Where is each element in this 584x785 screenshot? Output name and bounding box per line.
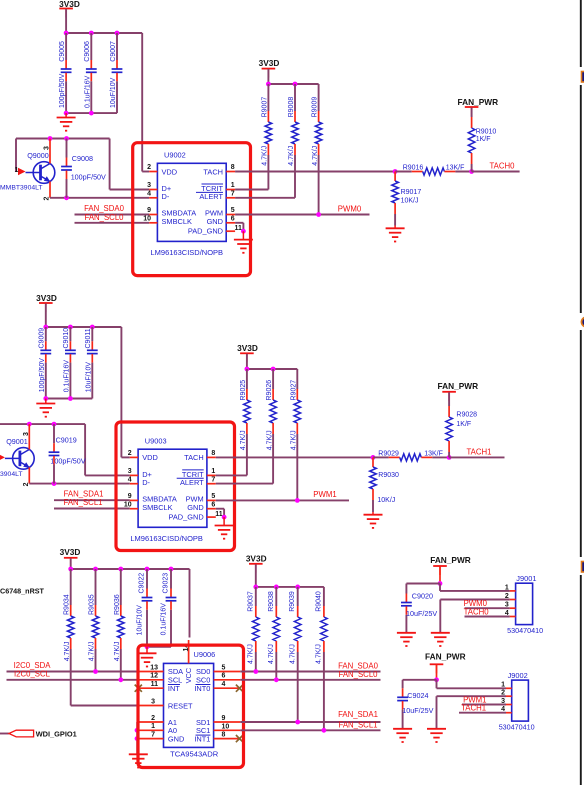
svg-text:R9036: R9036 bbox=[114, 594, 121, 615]
svg-text:4: 4 bbox=[222, 681, 226, 688]
svg-text:11: 11 bbox=[215, 511, 223, 518]
svg-text:10uF/10V: 10uF/10V bbox=[110, 77, 117, 108]
svg-text:TACH: TACH bbox=[203, 167, 223, 176]
wire bbox=[45, 399, 47, 404]
svg-text:TACH0: TACH0 bbox=[464, 607, 490, 616]
net FAN_SDA1 bbox=[240, 710, 380, 724]
svg-text:SMBCLK: SMBCLK bbox=[142, 503, 172, 512]
net FAN_SCL1 bbox=[240, 720, 380, 732]
node bbox=[115, 31, 120, 36]
node bbox=[447, 455, 452, 460]
resistor R9016 bbox=[395, 165, 472, 176]
net PWM0 bbox=[235, 205, 369, 217]
node bbox=[245, 367, 250, 372]
svg-text:PAD_GND: PAD_GND bbox=[188, 226, 223, 235]
svg-text:2: 2 bbox=[147, 164, 151, 171]
svg-text:D-: D- bbox=[142, 478, 150, 487]
svg-text:7: 7 bbox=[231, 191, 235, 198]
wire bbox=[29, 483, 130, 485]
svg-text:3: 3 bbox=[23, 432, 30, 436]
wire bbox=[146, 647, 148, 654]
resistor R9026 bbox=[216, 369, 277, 484]
svg-text:1: 1 bbox=[15, 167, 19, 174]
svg-text:LM96163CISD/NOPB: LM96163CISD/NOPB bbox=[151, 248, 224, 257]
svg-text:9: 9 bbox=[147, 207, 151, 214]
svg-text:FAN_SCL1: FAN_SCL1 bbox=[63, 498, 102, 507]
wire bbox=[440, 584, 510, 591]
power FAN_PWR bbox=[438, 381, 479, 401]
svg-text:3: 3 bbox=[128, 468, 132, 475]
clipped port symbol bbox=[582, 317, 584, 327]
net C6748_nRST bbox=[0, 586, 45, 595]
op-amp U9003 bbox=[124, 436, 223, 543]
svg-text:FAN_SDA0: FAN_SDA0 bbox=[84, 204, 125, 213]
resistor R9027 bbox=[290, 369, 300, 500]
svg-text:R9038: R9038 bbox=[268, 591, 275, 612]
svg-text:4.7K/J: 4.7K/J bbox=[262, 146, 269, 166]
svg-text:R9037: R9037 bbox=[247, 591, 254, 612]
wire bbox=[66, 112, 117, 114]
svg-text:3904LT: 3904LT bbox=[0, 471, 23, 478]
svg-text:PAD_GND: PAD_GND bbox=[169, 512, 204, 521]
svg-text:9: 9 bbox=[222, 715, 226, 722]
svg-text:100pF/50V: 100pF/50V bbox=[50, 457, 85, 466]
node bbox=[52, 422, 57, 427]
svg-text:10uF/10V: 10uF/10V bbox=[85, 362, 92, 393]
net PWM1 bbox=[462, 695, 506, 704]
resistor R9039 bbox=[289, 587, 301, 722]
svg-text:FAN_PWR: FAN_PWR bbox=[438, 381, 479, 391]
ground bbox=[427, 729, 446, 742]
svg-text:FAN_SCL0: FAN_SCL0 bbox=[84, 213, 124, 222]
wire bbox=[216, 509, 224, 517]
svg-text:R9027: R9027 bbox=[290, 380, 297, 401]
svg-text:2: 2 bbox=[151, 715, 155, 722]
power 3V3D bbox=[237, 343, 258, 362]
svg-text:10K/J: 10K/J bbox=[377, 497, 395, 504]
node bbox=[145, 644, 150, 649]
svg-text:11: 11 bbox=[235, 225, 243, 232]
wire bbox=[235, 223, 243, 231]
transistor Q9001 bbox=[0, 424, 34, 486]
resistor R9037 bbox=[247, 587, 259, 672]
svg-text:R9009: R9009 bbox=[312, 97, 319, 118]
svg-text:C9024: C9024 bbox=[407, 691, 428, 700]
svg-text:INT1: INT1 bbox=[194, 735, 210, 744]
svg-text:R9028: R9028 bbox=[456, 411, 477, 418]
svg-text:D-: D- bbox=[162, 192, 170, 201]
wire bbox=[437, 696, 507, 729]
svg-text:0.1uF/16V: 0.1uF/16V bbox=[64, 360, 71, 393]
highlight box U9002 bbox=[133, 143, 251, 276]
node bbox=[52, 481, 57, 486]
svg-text:6: 6 bbox=[231, 216, 235, 223]
svg-text:R9029: R9029 bbox=[378, 451, 399, 458]
svg-text:MMBT3904LT: MMBT3904LT bbox=[0, 184, 43, 191]
svg-text:1: 1 bbox=[151, 723, 155, 730]
node bbox=[145, 567, 150, 572]
svg-text:C9008: C9008 bbox=[72, 154, 93, 163]
power 3V3D bbox=[259, 58, 280, 78]
svg-text:530470410: 530470410 bbox=[507, 626, 543, 635]
svg-text:R9040: R9040 bbox=[315, 591, 322, 612]
power FAN_PWR bbox=[430, 555, 471, 575]
svg-text:TCA9543ADR: TCA9543ADR bbox=[170, 750, 219, 759]
node bbox=[295, 585, 300, 590]
svg-text:1: 1 bbox=[505, 584, 509, 591]
wire bbox=[403, 679, 437, 681]
svg-text:J9002: J9002 bbox=[508, 671, 528, 680]
net FAN_SDA0 bbox=[75, 204, 150, 214]
node bbox=[434, 677, 439, 682]
net TACH1 bbox=[459, 704, 506, 713]
svg-text:FAN_SDA1: FAN_SDA1 bbox=[338, 710, 378, 719]
border frame bbox=[580, 0, 582, 785]
svg-text:5: 5 bbox=[222, 664, 226, 671]
wire bbox=[372, 512, 374, 515]
highlight box U9003 bbox=[116, 422, 235, 551]
svg-text:R9034: R9034 bbox=[64, 594, 71, 615]
svg-text:4.7K/J: 4.7K/J bbox=[316, 644, 323, 664]
port WDI_GPIO1 bbox=[0, 730, 77, 739]
svg-text:R9026: R9026 bbox=[266, 380, 273, 401]
svg-text:R9007: R9007 bbox=[261, 97, 268, 118]
node bbox=[43, 325, 48, 330]
svg-text:C9005: C9005 bbox=[59, 41, 66, 62]
wire bbox=[46, 327, 130, 457]
resistor R9036 bbox=[114, 569, 124, 680]
svg-text:3V3D: 3V3D bbox=[259, 58, 280, 68]
ground bbox=[36, 404, 55, 417]
net TACH0 bbox=[472, 161, 520, 171]
resistor R9034 bbox=[64, 569, 138, 706]
ground bbox=[397, 633, 416, 646]
node bbox=[371, 455, 376, 460]
node bbox=[169, 567, 174, 572]
power 3V3D bbox=[59, 0, 80, 18]
wire bbox=[439, 567, 441, 584]
svg-text:1K/F: 1K/F bbox=[456, 421, 471, 428]
svg-text:INT0: INT0 bbox=[194, 684, 210, 693]
no-connect bbox=[135, 685, 142, 692]
svg-text:LM96163CISD/NOPB: LM96163CISD/NOPB bbox=[130, 534, 203, 543]
svg-text:3V3D: 3V3D bbox=[60, 547, 81, 557]
svg-text:FAN_PWR: FAN_PWR bbox=[430, 555, 471, 565]
svg-text:8: 8 bbox=[211, 450, 215, 457]
node bbox=[64, 195, 69, 200]
svg-text:GND: GND bbox=[168, 735, 184, 744]
capacitor C9005 bbox=[59, 33, 72, 113]
svg-text:ALERT: ALERT bbox=[199, 192, 223, 201]
resistor R9030 bbox=[370, 457, 399, 512]
svg-text:C9011: C9011 bbox=[85, 328, 92, 348]
svg-text:100pF/50V: 100pF/50V bbox=[39, 358, 46, 393]
node bbox=[271, 367, 276, 372]
svg-text:GND: GND bbox=[207, 217, 223, 226]
svg-text:FAN_PWR: FAN_PWR bbox=[458, 97, 499, 107]
clipped port symbol bbox=[582, 72, 584, 83]
node bbox=[68, 567, 73, 572]
svg-text:3: 3 bbox=[505, 602, 509, 609]
node bbox=[135, 728, 140, 733]
svg-text:Q9001: Q9001 bbox=[6, 437, 28, 446]
svg-text:4.7K/J: 4.7K/J bbox=[312, 146, 319, 166]
net FAN_SCL0 bbox=[240, 670, 380, 682]
svg-text:0.1uF/16V: 0.1uF/16V bbox=[160, 603, 167, 636]
power FAN_PWR bbox=[425, 651, 466, 673]
svg-text:3: 3 bbox=[151, 698, 155, 705]
wire bbox=[71, 569, 190, 638]
svg-text:4.7K/J: 4.7K/J bbox=[268, 644, 275, 664]
svg-text:2: 2 bbox=[23, 482, 30, 486]
svg-text:3V3D: 3V3D bbox=[246, 553, 267, 563]
svg-text:1: 1 bbox=[231, 182, 235, 189]
resistor R9029 bbox=[373, 450, 449, 461]
svg-text:5: 5 bbox=[231, 207, 235, 214]
svg-text:C9019: C9019 bbox=[56, 436, 77, 445]
ic U9006 bbox=[138, 640, 241, 759]
svg-text:10: 10 bbox=[143, 216, 151, 223]
capacitor C9010 bbox=[63, 327, 76, 399]
ground bbox=[215, 526, 234, 539]
wire bbox=[235, 171, 395, 173]
svg-text:3: 3 bbox=[147, 182, 151, 189]
svg-text:TACH: TACH bbox=[184, 453, 204, 462]
svg-text:U9003: U9003 bbox=[145, 436, 167, 445]
wire bbox=[65, 113, 67, 117]
svg-text:R9025: R9025 bbox=[240, 380, 247, 401]
node bbox=[469, 169, 474, 174]
svg-text:I2C0_SCL: I2C0_SCL bbox=[14, 670, 51, 679]
svg-text:4.7K/J: 4.7K/J bbox=[240, 430, 247, 450]
wire bbox=[136, 722, 138, 754]
no-connect bbox=[236, 685, 243, 692]
node bbox=[68, 325, 73, 330]
svg-text:6: 6 bbox=[222, 673, 226, 680]
ground bbox=[129, 754, 148, 767]
node bbox=[89, 31, 94, 36]
net FAN_SCL0 bbox=[75, 213, 150, 223]
svg-text:13: 13 bbox=[150, 664, 158, 671]
node bbox=[89, 111, 94, 116]
capacitor C9022 bbox=[136, 569, 152, 647]
wire bbox=[255, 564, 257, 587]
svg-text:3V3D: 3V3D bbox=[237, 343, 258, 353]
svg-text:4.7K/J: 4.7K/J bbox=[290, 644, 297, 664]
node bbox=[222, 515, 227, 520]
net FAN_SDA1 bbox=[54, 490, 130, 501]
svg-text:4: 4 bbox=[501, 706, 505, 713]
svg-text:4.7K/J: 4.7K/J bbox=[291, 430, 298, 450]
capacitor C9023 bbox=[160, 569, 176, 647]
svg-text:1: 1 bbox=[211, 468, 215, 475]
node bbox=[438, 581, 443, 586]
wire bbox=[70, 558, 72, 569]
node bbox=[64, 31, 69, 36]
svg-text:FAN_SCL1: FAN_SCL1 bbox=[338, 720, 377, 729]
wire bbox=[110, 139, 150, 190]
svg-text:7: 7 bbox=[211, 476, 215, 483]
node bbox=[64, 136, 69, 141]
ground bbox=[138, 653, 157, 666]
svg-text:4.7K/J: 4.7K/J bbox=[266, 430, 273, 450]
wire bbox=[46, 398, 93, 400]
svg-text:3V3D: 3V3D bbox=[59, 0, 80, 9]
ground bbox=[386, 228, 405, 241]
wire bbox=[65, 9, 67, 33]
svg-text:2: 2 bbox=[505, 593, 509, 600]
highlight box U9006 bbox=[138, 645, 244, 767]
resistor R9040 bbox=[315, 587, 327, 730]
resistor R9017 bbox=[392, 172, 422, 226]
wire bbox=[256, 586, 324, 588]
wire bbox=[0, 423, 85, 425]
node bbox=[118, 567, 123, 572]
net FAN_SDA0 bbox=[240, 662, 380, 674]
svg-text:J9001: J9001 bbox=[516, 574, 536, 583]
svg-text:4.7K/J: 4.7K/J bbox=[248, 644, 255, 664]
svg-text:TACH0: TACH0 bbox=[490, 161, 516, 170]
svg-text:C9010: C9010 bbox=[63, 328, 70, 349]
resistor R9008 bbox=[235, 84, 298, 198]
node bbox=[135, 736, 140, 741]
svg-text:R9035: R9035 bbox=[89, 594, 96, 615]
svg-text:VDD: VDD bbox=[142, 453, 158, 462]
node bbox=[90, 325, 95, 330]
power 3V3D bbox=[36, 293, 57, 312]
node bbox=[274, 585, 279, 590]
ground bbox=[57, 118, 76, 131]
svg-text:R9016: R9016 bbox=[403, 165, 424, 172]
node bbox=[68, 396, 73, 401]
wire bbox=[223, 517, 225, 525]
transistor Q9000 bbox=[0, 139, 55, 201]
op-amp U9002 bbox=[143, 151, 242, 258]
wire bbox=[66, 33, 149, 172]
resistor R9007 bbox=[235, 84, 272, 190]
ground bbox=[431, 633, 450, 646]
svg-text:12: 12 bbox=[150, 673, 158, 680]
no-connect bbox=[236, 735, 243, 742]
svg-text:2: 2 bbox=[128, 450, 132, 457]
capacitor C9011 bbox=[85, 327, 98, 399]
node bbox=[293, 82, 298, 87]
svg-text:10uF/10V: 10uF/10V bbox=[136, 605, 143, 636]
svg-text:GND: GND bbox=[187, 503, 203, 512]
resistor R9035 bbox=[89, 569, 99, 672]
svg-text:100pF/50V: 100pF/50V bbox=[59, 73, 66, 108]
wire bbox=[16, 139, 110, 172]
svg-text:VCC: VCC bbox=[184, 667, 193, 683]
wire bbox=[267, 69, 269, 84]
node bbox=[27, 422, 32, 427]
svg-text:2: 2 bbox=[501, 690, 505, 697]
svg-text:4.7K/J: 4.7K/J bbox=[114, 641, 121, 661]
node bbox=[241, 229, 246, 234]
svg-text:C9023: C9023 bbox=[163, 573, 170, 594]
svg-text:FAN_PWR: FAN_PWR bbox=[425, 651, 466, 661]
resistor R9025 bbox=[216, 369, 250, 475]
resistor R9010 bbox=[468, 108, 496, 172]
node bbox=[48, 136, 53, 141]
svg-text:Q9000: Q9000 bbox=[27, 151, 49, 160]
svg-text:RESET: RESET bbox=[168, 701, 193, 710]
svg-text:4.7K/J: 4.7K/J bbox=[89, 641, 96, 661]
capacitor C9019 bbox=[49, 424, 86, 484]
capacitor C9024 bbox=[397, 680, 433, 729]
svg-text:SMBCLK: SMBCLK bbox=[162, 217, 192, 226]
svg-text:10uF/25V: 10uF/25V bbox=[402, 706, 433, 715]
wire bbox=[394, 226, 396, 229]
ground bbox=[234, 240, 253, 253]
svg-text:TACH1: TACH1 bbox=[467, 448, 492, 457]
wire bbox=[440, 600, 510, 633]
svg-text:530470410: 530470410 bbox=[499, 722, 535, 731]
wire bbox=[147, 646, 171, 648]
node bbox=[266, 82, 271, 87]
svg-text:4.7K/J: 4.7K/J bbox=[64, 641, 71, 661]
wire bbox=[216, 456, 373, 458]
node bbox=[118, 677, 123, 682]
node bbox=[43, 396, 48, 401]
svg-text:R9017: R9017 bbox=[401, 189, 422, 196]
wire bbox=[437, 680, 507, 689]
wire bbox=[246, 354, 248, 369]
svg-text:C6748_nRST: C6748_nRST bbox=[0, 586, 45, 595]
ground bbox=[393, 729, 412, 742]
wire bbox=[242, 231, 244, 239]
svg-text:WDI_GPIO1: WDI_GPIO1 bbox=[36, 730, 77, 739]
svg-text:3V3D: 3V3D bbox=[36, 293, 57, 303]
svg-text:6: 6 bbox=[211, 501, 215, 508]
svg-text:R9010: R9010 bbox=[476, 129, 497, 136]
svg-text:PWM1: PWM1 bbox=[313, 490, 336, 499]
svg-text:I2C0_SDA: I2C0_SDA bbox=[14, 661, 52, 670]
wire bbox=[50, 197, 149, 199]
wire bbox=[45, 304, 47, 328]
svg-text:PWM0: PWM0 bbox=[338, 205, 362, 214]
resistor R9009 bbox=[312, 84, 322, 215]
wire bbox=[247, 368, 297, 370]
wire bbox=[436, 665, 438, 680]
svg-text:11: 11 bbox=[151, 681, 159, 688]
svg-text:9: 9 bbox=[128, 493, 132, 500]
connector J9002 bbox=[499, 671, 535, 731]
svg-text:100pF/50V: 100pF/50V bbox=[71, 173, 106, 182]
svg-text:C9022: C9022 bbox=[139, 573, 146, 594]
svg-text:4: 4 bbox=[505, 610, 509, 617]
svg-text:C9006: C9006 bbox=[84, 41, 91, 62]
svg-text:R9039: R9039 bbox=[289, 591, 296, 612]
svg-text:FAN_SCL0: FAN_SCL0 bbox=[338, 670, 378, 679]
node bbox=[393, 169, 398, 174]
node bbox=[93, 567, 98, 572]
capacitor C9020 bbox=[401, 584, 437, 633]
svg-text:C9007: C9007 bbox=[110, 41, 117, 62]
net TACH1 bbox=[449, 448, 504, 458]
svg-text:8: 8 bbox=[222, 731, 226, 738]
resistor R9038 bbox=[268, 587, 280, 680]
node bbox=[93, 669, 98, 674]
svg-text:C9009: C9009 bbox=[39, 328, 46, 349]
svg-text:C9020: C9020 bbox=[412, 591, 433, 600]
svg-text:13K/F: 13K/F bbox=[446, 165, 465, 172]
svg-text:VDD: VDD bbox=[162, 167, 178, 176]
svg-text:10: 10 bbox=[222, 723, 230, 730]
svg-text:10K/J: 10K/J bbox=[401, 197, 419, 204]
svg-text:4: 4 bbox=[128, 476, 132, 483]
svg-text:INT: INT bbox=[168, 684, 180, 693]
